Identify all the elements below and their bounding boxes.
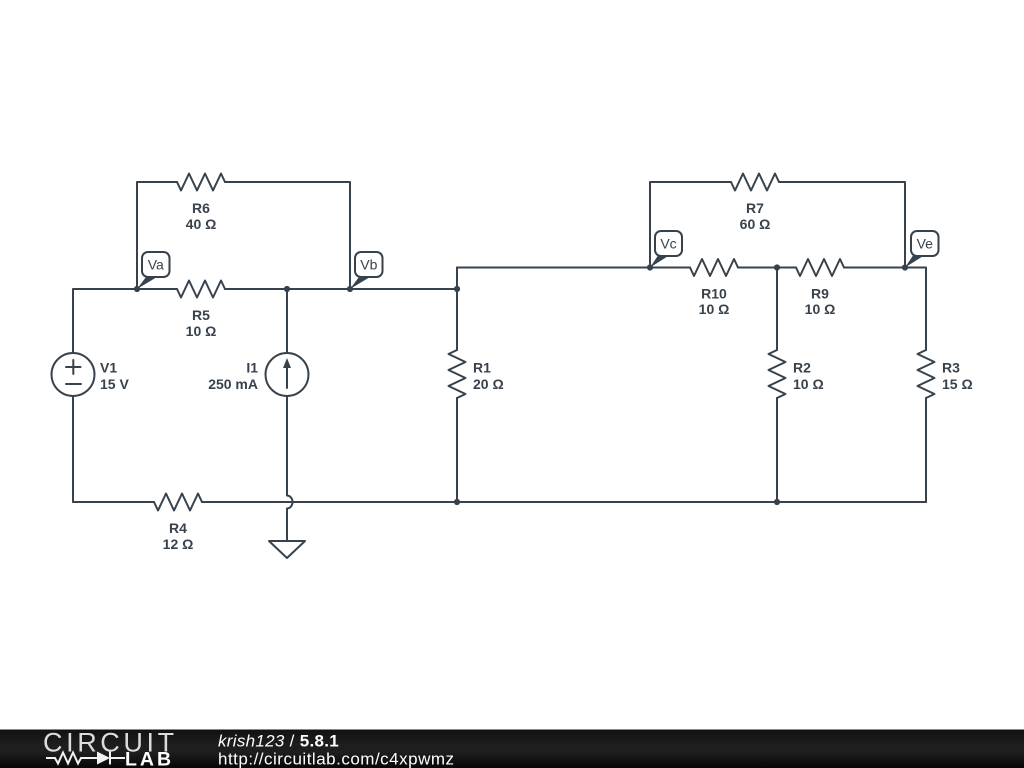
voltage source V1 [52, 353, 95, 396]
svg-text:http://circuitlab.com/c4xpwmz: http://circuitlab.com/c4xpwmz [218, 750, 455, 768]
current source I1 [266, 353, 309, 396]
svg-text:R5: R5 [192, 307, 210, 323]
wire R2 bottom lead [776, 398, 778, 502]
node label Ve [905, 256, 924, 268]
svg-text:Ve: Ve [917, 236, 934, 252]
node Vc junction dot [647, 264, 653, 270]
node A junction dot [134, 286, 140, 292]
resistor R7 [731, 174, 779, 191]
wire bottom rail [202, 501, 926, 503]
wire I1 bottom lead with hop over bottom rail [287, 396, 293, 541]
svg-text:60 Ω: 60 Ω [740, 216, 771, 232]
node label Vb [350, 277, 370, 289]
resistor R2 [769, 350, 786, 398]
wire R1 bottom lead [456, 398, 458, 502]
svg-text:Vb: Vb [360, 257, 377, 273]
wire R10 to R9 [738, 267, 796, 269]
logo resistor-diode glyph [46, 752, 125, 765]
wire R5 to R1 top junction [225, 288, 457, 290]
svg-text:I1: I1 [246, 360, 258, 376]
wire R6 branch left riser [137, 182, 177, 289]
resistor R9 [796, 259, 844, 276]
svg-text:R2: R2 [793, 360, 811, 376]
wire I1 top lead [286, 289, 288, 353]
resistor R5 [177, 281, 225, 298]
svg-text:R1: R1 [473, 360, 491, 376]
wire R7 branch left riser [650, 182, 731, 268]
wire R3 bottom lead [925, 398, 927, 502]
svg-text:V1: V1 [100, 360, 117, 376]
svg-text:LAB: LAB [125, 749, 174, 768]
wire Ve to R3 [905, 268, 926, 351]
svg-text:10 Ω: 10 Ω [805, 301, 836, 317]
wire mid rail to Vc [457, 267, 690, 269]
node Ve junction dot [902, 264, 908, 270]
svg-text:20 Ω: 20 Ω [473, 376, 504, 392]
wire R6 to Vb riser [225, 182, 350, 289]
wire V1 bottom lead [72, 396, 74, 502]
node R1-top junction dot [454, 286, 460, 292]
resistor R4 [154, 494, 202, 511]
wire V1 top lead to node A [73, 289, 137, 353]
resistor R10 [690, 259, 738, 276]
node I1-top junction dot [284, 286, 290, 292]
wire R7 to Ve riser [779, 182, 905, 268]
wire R2 top lead [776, 268, 778, 351]
node label Vc [650, 256, 669, 268]
ground [269, 541, 305, 558]
node R1-bottom junction dot [454, 499, 460, 505]
svg-text:250 mA: 250 mA [208, 376, 258, 392]
resistor R3 [918, 350, 935, 398]
svg-text:40 Ω: 40 Ω [186, 216, 217, 232]
svg-text:15 V: 15 V [100, 376, 129, 392]
svg-text:15 Ω: 15 Ω [942, 376, 973, 392]
svg-text:R7: R7 [746, 200, 764, 216]
resistor R6 [177, 174, 225, 191]
svg-text:10 Ω: 10 Ω [699, 301, 730, 317]
node R2-top junction dot [774, 264, 780, 270]
svg-text:krish123 / 5.8.1: krish123 / 5.8.1 [218, 732, 339, 751]
wire R9 to Ve [844, 267, 905, 269]
svg-text:R4: R4 [169, 520, 187, 536]
wire R1 riser link [456, 268, 458, 351]
svg-text:R3: R3 [942, 360, 960, 376]
svg-text:R6: R6 [192, 200, 210, 216]
node Vb junction dot [347, 286, 353, 292]
svg-text:Va: Va [148, 257, 164, 273]
wire bottom rail left to R4 [73, 501, 154, 503]
svg-text:R9: R9 [811, 286, 829, 302]
node R2-bottom junction dot [774, 499, 780, 505]
svg-text:10 Ω: 10 Ω [186, 323, 217, 339]
svg-text:R10: R10 [701, 286, 727, 302]
resistor R1 [449, 350, 466, 398]
svg-text:10 Ω: 10 Ω [793, 376, 824, 392]
node label Va [137, 277, 157, 289]
svg-text:12 Ω: 12 Ω [163, 536, 194, 552]
wire node A to R5 [137, 288, 177, 290]
svg-text:Vc: Vc [660, 236, 676, 252]
